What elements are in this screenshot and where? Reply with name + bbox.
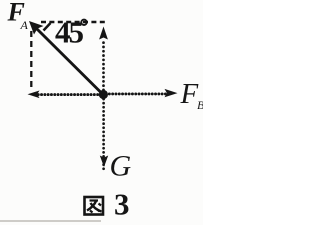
force F_A (diagonal arrow up-left, solid) <box>29 21 103 95</box>
svg-text:B: B <box>197 98 203 112</box>
svg-text:45: 45 <box>55 15 84 50</box>
svg-text:3: 3 <box>114 187 130 222</box>
horizontal component arrow (left) <box>28 91 102 99</box>
svg-text:F: F <box>180 78 199 110</box>
wire: left dashed construction line <box>30 31 32 91</box>
wire: 45-degree angle tick <box>44 23 51 31</box>
vertical component arrow (dashed, up) <box>99 27 108 91</box>
svg-text:A: A <box>20 18 29 32</box>
svg-text:G: G <box>110 150 132 183</box>
force F_B (arrow right) <box>106 89 178 97</box>
wire: faint scan line bottom <box>0 220 101 222</box>
force G (arrow down, dotted shaft) <box>100 99 108 170</box>
node O (central junction dot) <box>99 90 108 99</box>
caption: hand-drawn CJK glyph "tu" (figure) <box>85 197 104 215</box>
wire: top dashed construction line <box>41 21 105 23</box>
